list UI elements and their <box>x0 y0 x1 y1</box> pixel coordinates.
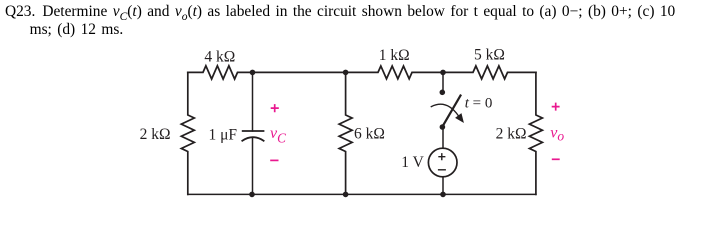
svg-text:4 kΩ: 4 kΩ <box>204 49 235 66</box>
svg-text:1 kΩ: 1 kΩ <box>379 47 410 64</box>
svg-text:1 V: 1 V <box>401 154 424 171</box>
svg-text:vo: vo <box>550 125 564 144</box>
svg-text:5 kΩ: 5 kΩ <box>474 47 505 64</box>
svg-text:2 kΩ: 2 kΩ <box>140 126 171 143</box>
svg-text:t = 0: t = 0 <box>465 96 493 112</box>
svg-text:6 kΩ: 6 kΩ <box>354 126 385 143</box>
svg-text:1 μF: 1 μF <box>209 127 238 144</box>
svg-text:2 kΩ: 2 kΩ <box>496 126 527 143</box>
svg-text:vC: vC <box>270 125 286 145</box>
